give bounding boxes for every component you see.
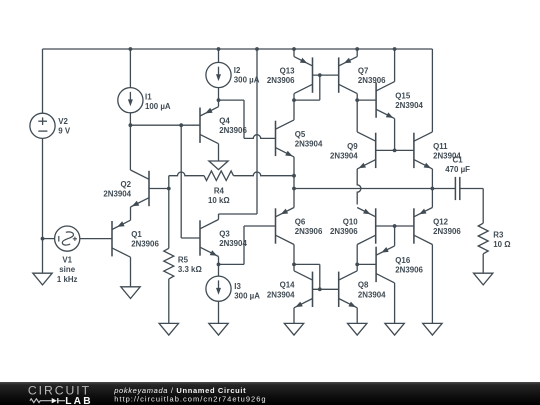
ground (V1) [33, 273, 52, 285]
transistor Q6 (pnp) [276, 208, 295, 245]
wire V2 top lead [42, 49, 44, 113]
voltage source V2 [30, 113, 55, 138]
wire Q7 collector down [356, 94, 358, 101]
ground (I3) [209, 323, 228, 335]
label C1 value [445, 165, 470, 174]
junction [217, 47, 221, 51]
wire down to R3 [482, 189, 484, 224]
label C1 name [453, 156, 464, 165]
wire node up to R4 left [168, 176, 170, 189]
svg-text:Q16: Q16 [395, 256, 411, 265]
svg-text:LAB: LAB [65, 396, 93, 405]
wire Q8 collector up [356, 264, 358, 270]
wire rail to Q13 emitter [293, 49, 295, 57]
svg-text:I1: I1 [145, 93, 152, 102]
wire Q13 collector down [293, 94, 295, 101]
svg-text:2N3904: 2N3904 [358, 290, 386, 299]
transistor Q16 (pnp) [376, 246, 395, 283]
ground (R5) [159, 323, 178, 335]
transistor Q5 (npn) [276, 120, 295, 157]
wire R4 right lead to Q5 emitter node (hops) [234, 172, 295, 176]
wire Q2 base to node [149, 188, 169, 190]
current source I3 [206, 276, 231, 301]
wire Q16 emitter to base tie [394, 226, 396, 246]
junction [292, 47, 296, 51]
junction [255, 47, 259, 51]
wire to Q6 base [244, 225, 276, 227]
wire I1 to node [129, 113, 131, 125]
junction [355, 47, 359, 51]
svg-text:2N3904: 2N3904 [330, 151, 358, 160]
svg-text:470 µF: 470 µF [445, 165, 470, 174]
svg-text:Q15: Q15 [395, 92, 411, 101]
label V1 value [57, 256, 78, 284]
svg-text:2N3906: 2N3906 [219, 126, 247, 135]
ground (Q12 collector) [423, 323, 442, 335]
svg-text:Q3: Q3 [219, 229, 230, 238]
wire Q4 emitter node right [219, 99, 245, 101]
label Q4 [219, 117, 247, 136]
label Q10 [330, 217, 358, 236]
junction [179, 123, 183, 127]
label Q2 [103, 180, 131, 199]
wire I1 node to Q4 base [130, 124, 200, 126]
svg-text:R4: R4 [214, 187, 225, 196]
wire Q2 emitter to Q1 emitter [130, 207, 132, 220]
label I1 value [145, 93, 171, 112]
label Q1 [131, 230, 159, 249]
svg-text:R5: R5 [178, 256, 189, 265]
svg-text:2N3906: 2N3906 [330, 227, 358, 236]
svg-text:10 kΩ: 10 kΩ [208, 196, 230, 205]
label Q5 [295, 130, 323, 149]
wire Q5 collector to mirror node [293, 100, 295, 120]
wire rail to I1 [129, 49, 131, 88]
transistor Q1 (pnp) [112, 220, 131, 257]
svg-text:Q8: Q8 [358, 281, 369, 290]
transistor Q13 (pnp) [294, 57, 313, 94]
wire to ground at V1 [42, 239, 44, 274]
junction [167, 187, 171, 191]
svg-text:2N3904: 2N3904 [433, 151, 461, 160]
wire Q9 emitter to Q10 emitter (hops over output) [357, 169, 361, 205]
svg-text:10 Ω: 10 Ω [493, 240, 510, 249]
transistor Q10 (pnp) [357, 208, 376, 245]
label Q16 [395, 256, 423, 275]
ground (Q8 emitter) [348, 323, 367, 335]
label R4 value [208, 187, 230, 206]
wire node to Q2 collector [129, 125, 131, 170]
svg-text:2N3904: 2N3904 [295, 139, 323, 148]
wire Q3 collector lead [218, 214, 220, 220]
label R5 value [178, 256, 202, 275]
wire down to Q5 base level [243, 100, 245, 138]
junction [355, 98, 359, 102]
wire Q10 base to Q12 base [376, 225, 414, 227]
junction [292, 98, 296, 102]
junction [129, 123, 133, 127]
wire R5 bottom to ground [168, 279, 170, 324]
transistor Q14 (npn) [294, 271, 313, 308]
svg-text:2N3906: 2N3906 [358, 76, 386, 85]
wire Q6 collector down [293, 245, 295, 265]
svg-text:Q12: Q12 [433, 217, 449, 226]
junction [393, 224, 397, 228]
svg-text:3.3 kΩ: 3.3 kΩ [178, 265, 202, 274]
wire Q11 emitter to output [431, 169, 433, 189]
transistor Q15 (npn) [376, 82, 395, 119]
svg-text:I3: I3 [234, 282, 241, 291]
svg-text:Q11: Q11 [433, 142, 448, 151]
svg-text:Q5: Q5 [295, 130, 306, 139]
junction [393, 149, 397, 153]
junction [217, 98, 221, 102]
wire I2 to Q4 emitter node [218, 88, 220, 101]
svg-text:2N3906: 2N3906 [131, 240, 159, 249]
wire Q13 base to Q7 base [313, 74, 339, 76]
transistor Q2 (npn) [131, 170, 150, 207]
junction [355, 263, 359, 267]
wire between R4 node and output node [293, 176, 295, 189]
label Q8 [358, 281, 386, 300]
wire base branch up [319, 75, 321, 100]
junction [292, 263, 296, 267]
wire output node to Q6 emitter [293, 189, 295, 208]
wire Q3 collector to rail drop [219, 213, 258, 215]
junction [217, 263, 221, 267]
svg-text:2N3906: 2N3906 [295, 227, 323, 236]
transistor Q7 (pnp) [339, 57, 358, 94]
wire Q5 emitter down [293, 157, 295, 176]
svg-text:Q2: Q2 [120, 180, 131, 189]
CircuitLab logo: schematic line (resistor + diode) [30, 399, 52, 403]
svg-text:Q13: Q13 [280, 67, 296, 76]
svg-text:Q10: Q10 [343, 217, 359, 226]
label Q12 [433, 217, 461, 236]
wire output node to C1 [294, 188, 455, 190]
svg-text:2N3906: 2N3906 [395, 265, 423, 274]
potentiometer R4 body [204, 171, 233, 181]
wire up to Q6 base level [243, 226, 245, 264]
label Q13 [267, 67, 295, 86]
wire Q14 collector node right [294, 263, 320, 265]
transistor Q4 (pnp) [200, 107, 219, 144]
label Q15 [395, 92, 423, 111]
svg-text:sine: sine [59, 265, 75, 274]
transistor Q8 (npn) [339, 271, 358, 308]
current source I1 [118, 88, 143, 113]
wire down to Q9 collector [356, 100, 358, 132]
wire Q14 collector lead [293, 264, 295, 270]
svg-text:I2: I2 [234, 66, 241, 75]
transistor Q3 (npn) [200, 220, 219, 257]
wire rail to I2 [218, 49, 220, 62]
wire mirror node to base branch [294, 99, 320, 101]
svg-text:R3: R3 [493, 230, 504, 239]
wire Q4 base node down to Q3 base [180, 125, 182, 238]
svg-text:Q7: Q7 [358, 67, 369, 76]
wire Q15 collector to rail [394, 49, 396, 82]
wire R4 left lead (hops over Q3-base wire) [169, 172, 204, 176]
resistor R3 [478, 223, 488, 254]
label I2 value [234, 66, 260, 85]
wire to Q3 base [181, 237, 200, 239]
wire down to Q14/Q8 bases [319, 264, 321, 289]
junction [41, 237, 45, 241]
svg-text:Q4: Q4 [219, 117, 230, 126]
svg-text:2N3904: 2N3904 [219, 239, 247, 248]
wire V1 to Q1 base [80, 238, 112, 240]
svg-text:2N3904: 2N3904 [395, 101, 423, 110]
junction [292, 174, 296, 178]
svg-text:V1: V1 [62, 256, 72, 265]
wire rail drop to Q3 collector [256, 49, 258, 214]
transistor Q9 (npn) [357, 132, 376, 169]
capacitor C1 [455, 177, 459, 200]
svg-text:2N3904: 2N3904 [103, 190, 131, 199]
wire Q1 collector to ground [130, 257, 132, 287]
wire to Q15 base [357, 99, 376, 101]
svg-text:http://circuitlab.com/cn2r74et: http://circuitlab.com/cn2r74etu926g [114, 394, 266, 403]
wire V1 negative lead [43, 238, 55, 240]
label V2 value [58, 117, 71, 136]
junction [431, 187, 435, 191]
wire Q14 base to Q8 base [313, 288, 339, 290]
label Q9 [330, 142, 358, 161]
ground (R3) [474, 273, 493, 285]
wire node to I3 [218, 264, 220, 276]
wire Q16 collector to ground [394, 283, 396, 324]
ground (Q1 collector) [121, 287, 140, 299]
wire output to Q12 emitter [431, 189, 433, 208]
svg-text:Q14: Q14 [280, 281, 296, 290]
wire node to R5 top [168, 189, 170, 249]
wire to Q16 base [357, 263, 376, 265]
wire V2 bottom lead [42, 138, 44, 238]
wire Q15 emitter to base tie [394, 119, 396, 151]
ground (Q16 collector) [385, 323, 404, 335]
junction [318, 287, 322, 291]
label Q6 [295, 217, 323, 236]
label Q14 [267, 281, 295, 300]
label Q3 [219, 229, 247, 248]
junction [292, 187, 296, 191]
wire R3 to ground [482, 254, 484, 273]
svg-text:9 V: 9 V [58, 127, 71, 136]
ground (Q14 emitter) [284, 323, 303, 335]
label R3 value [493, 230, 510, 249]
svg-text:2N3904: 2N3904 [267, 290, 295, 299]
junction [393, 47, 397, 51]
junction [318, 73, 322, 77]
svg-text:Q6: Q6 [295, 217, 306, 226]
wire Q3 emitter to I3 node [218, 257, 220, 265]
junction [129, 47, 133, 51]
svg-text:2N3906: 2N3906 [433, 227, 461, 236]
wire Q12 collector to ground [431, 245, 433, 324]
voltage source V1 (sine) [55, 226, 80, 251]
wire Q10 collector down [356, 245, 358, 265]
footer bar [0, 382, 540, 405]
transistor Q12 (pnp) [414, 208, 433, 245]
svg-text:100 µA: 100 µA [145, 102, 171, 111]
wire Q4 collector to R4 wiper [218, 144, 220, 161]
current source I2 [206, 62, 231, 87]
svg-text:Q9: Q9 [347, 142, 358, 151]
potentiometer R4 wiper [209, 161, 228, 170]
label I3 value [234, 282, 260, 301]
svg-text:V2: V2 [58, 117, 68, 126]
transistor Q11 (npn) [414, 132, 433, 169]
svg-text:2N3906: 2N3906 [267, 76, 295, 85]
label Q11 [433, 142, 461, 161]
wire I3 node right [219, 263, 245, 265]
wire Q14 emitter to ground [293, 308, 295, 324]
svg-text:300 µA: 300 µA [234, 292, 260, 301]
wire I3 to ground [218, 301, 220, 323]
resistor R5 [164, 248, 174, 279]
wire Q9 base to Q11 base [376, 149, 414, 151]
wire V+ top rail [43, 48, 433, 50]
wire Q11 collector to rail [431, 49, 433, 132]
svg-text:1 kHz: 1 kHz [57, 275, 78, 284]
svg-text:Q1: Q1 [131, 230, 142, 239]
wire to Q5 base (hops over rail drop) [244, 135, 276, 139]
label Q7 [358, 67, 386, 86]
svg-text:300 µA: 300 µA [234, 76, 260, 85]
wire rail to Q7 emitter [356, 49, 358, 57]
wire Q8 emitter to ground [356, 308, 358, 324]
wire Q4 emitter lead [218, 100, 220, 107]
wire C1 to R3 [460, 188, 483, 190]
